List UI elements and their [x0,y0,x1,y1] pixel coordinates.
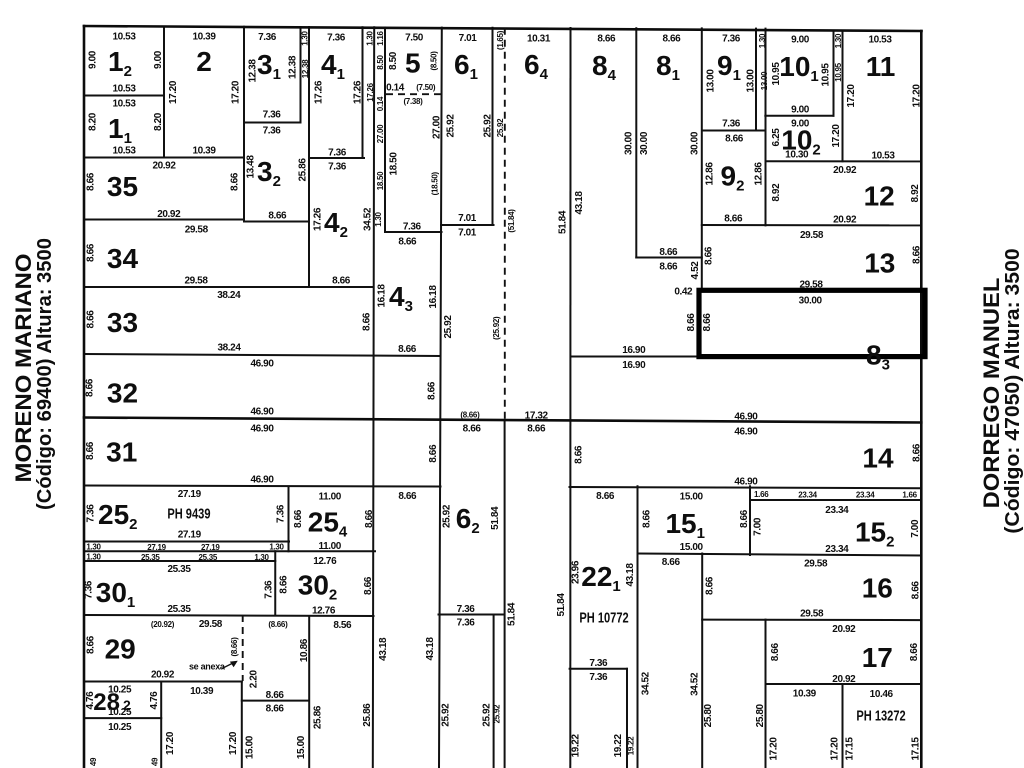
svg-text:8.66: 8.66 [86,172,97,191]
svg-text:27.19: 27.19 [178,489,202,500]
svg-text:8.20: 8.20 [88,112,99,131]
svg-text:17.20: 17.20 [831,124,842,148]
svg-text:46.90: 46.90 [250,359,274,370]
svg-text:38.24: 38.24 [217,290,241,301]
svg-text:17.20: 17.20 [830,737,841,761]
svg-text:8.66: 8.66 [363,576,374,595]
svg-text:8.92: 8.92 [771,183,782,202]
svg-text:23.96: 23.96 [571,560,582,584]
svg-text:8.66: 8.66 [362,312,373,331]
svg-text:25.92: 25.92 [496,118,505,137]
svg-text:8.92: 8.92 [910,184,921,203]
svg-text:25.35: 25.35 [141,553,160,562]
svg-text:20.92: 20.92 [832,674,856,685]
svg-text:8.66: 8.66 [85,378,96,397]
svg-text:19.22: 19.22 [613,734,624,758]
svg-text:7.01: 7.01 [459,33,478,44]
svg-text:11.00: 11.00 [319,541,342,552]
svg-text:34: 34 [107,243,139,274]
svg-text:34.52: 34.52 [640,671,651,695]
svg-text:(8.66): (8.66) [230,637,239,657]
svg-text:PH 13272: PH 13272 [856,707,905,724]
svg-text:16.90: 16.90 [622,345,646,356]
svg-text:1.30: 1.30 [366,30,375,45]
svg-text:43.18: 43.18 [425,637,436,661]
svg-text:(1.65): (1.65) [496,30,505,50]
svg-text:17.26: 17.26 [352,80,363,104]
svg-text:1.66: 1.66 [754,490,769,499]
svg-text:2.20: 2.20 [248,670,259,689]
svg-text:13.00: 13.00 [760,71,769,90]
svg-text:8.66: 8.66 [364,509,375,528]
svg-text:13: 13 [864,247,895,278]
svg-text:38.24: 38.24 [217,343,241,354]
svg-text:7.36: 7.36 [263,126,282,137]
svg-text:7.36: 7.36 [86,504,97,523]
svg-text:29.58: 29.58 [800,609,824,620]
svg-text:7.01: 7.01 [458,228,477,239]
svg-text:51.84: 51.84 [556,593,567,617]
svg-text:8.66: 8.66 [597,34,616,45]
svg-text:27.00: 27.00 [431,115,442,139]
svg-text:(25.92): (25.92) [492,316,501,340]
svg-text:18.50: 18.50 [376,171,385,190]
svg-text:14: 14 [862,442,894,473]
svg-text:7.36: 7.36 [457,604,476,615]
svg-text:10.39: 10.39 [793,688,817,699]
svg-text:17.15: 17.15 [845,737,856,761]
svg-text:7.36: 7.36 [327,33,346,44]
svg-text:25.92: 25.92 [483,114,494,138]
svg-text:17: 17 [862,642,893,673]
svg-text:8.66: 8.66 [266,690,285,701]
svg-text:23.34: 23.34 [798,491,817,500]
svg-text:(7.50): (7.50) [416,83,436,92]
svg-text:1.66: 1.66 [902,491,917,500]
svg-text:8.66: 8.66 [86,635,97,654]
svg-text:10.53: 10.53 [868,35,892,46]
svg-text:8.66: 8.66 [662,557,681,568]
svg-text:20.92: 20.92 [833,215,857,226]
svg-text:25.35: 25.35 [167,604,191,615]
svg-text:7.01: 7.01 [458,213,477,224]
svg-text:(51.84): (51.84) [507,209,516,233]
svg-text:30.00: 30.00 [639,131,650,155]
svg-text:25.35: 25.35 [198,553,217,562]
svg-text:16.18: 16.18 [428,285,439,309]
svg-text:8.66: 8.66 [527,423,546,434]
svg-text:8.66: 8.66 [266,704,285,715]
svg-text:10.39: 10.39 [192,32,216,43]
svg-text:7.36: 7.36 [328,162,347,173]
svg-text:46.90: 46.90 [734,477,758,488]
svg-text:8.66: 8.66 [86,243,97,262]
svg-text:11.00: 11.00 [319,492,342,503]
svg-text:8.66: 8.66 [428,444,439,463]
svg-text:7.36: 7.36 [263,580,274,599]
svg-text:(Código: 47050) Altura: 3500: (Código: 47050) Altura: 3500 [1002,248,1024,533]
svg-text:7.50: 7.50 [405,33,424,44]
svg-text:0.14: 0.14 [386,83,405,94]
svg-text:16.18: 16.18 [377,284,388,308]
svg-text:7.36: 7.36 [589,672,608,683]
svg-text:17.26: 17.26 [313,80,324,104]
svg-text:19.22: 19.22 [627,736,636,755]
svg-text:10.25: 10.25 [108,722,132,733]
svg-text:PH 9439: PH 9439 [167,505,210,522]
svg-text:1.30: 1.30 [300,30,309,45]
svg-text:7.36: 7.36 [275,504,286,523]
svg-text:25.86: 25.86 [313,705,324,729]
svg-text:15.00: 15.00 [680,492,704,503]
svg-text:8.66: 8.66 [268,211,287,222]
svg-text:25.92: 25.92 [442,504,453,528]
svg-text:25.86: 25.86 [298,158,309,182]
svg-text:12.86: 12.86 [704,162,715,186]
svg-text:27.19: 27.19 [147,543,166,552]
svg-text:7.36: 7.36 [589,658,608,669]
svg-text:17.20: 17.20 [231,80,242,104]
svg-text:0.14: 0.14 [376,96,385,111]
svg-text:7.00: 7.00 [910,519,921,538]
svg-text:10.39: 10.39 [190,686,214,697]
svg-text:8.66: 8.66 [642,509,653,528]
svg-text:34.52: 34.52 [362,207,373,231]
svg-text:8.66: 8.66 [702,313,713,332]
svg-text:0.42: 0.42 [674,286,693,297]
svg-text:10.53: 10.53 [871,151,895,162]
svg-text:9.00: 9.00 [791,105,810,116]
svg-text:7.36: 7.36 [457,618,476,629]
svg-text:10.95: 10.95 [821,63,832,87]
svg-text:8.66: 8.66 [573,445,584,464]
svg-text:(18.50): (18.50) [431,171,440,195]
svg-text:8.66: 8.66 [86,310,97,329]
svg-text:29.58: 29.58 [185,225,209,236]
svg-text:8.66: 8.66 [686,313,697,332]
svg-text:(20.92): (20.92) [151,620,175,629]
svg-text:1.30: 1.30 [758,33,767,48]
svg-text:29.58: 29.58 [800,230,824,241]
svg-text:43.18: 43.18 [574,191,585,215]
svg-text:10.53: 10.53 [112,32,136,43]
svg-text:17.20: 17.20 [912,84,923,108]
svg-text:1.30: 1.30 [86,543,101,552]
svg-text:(7.38): (7.38) [403,97,423,106]
svg-text:1.16: 1.16 [376,30,385,45]
svg-text:19.22: 19.22 [571,734,582,758]
svg-text:DORREGO MANUEL: DORREGO MANUEL [979,278,1004,509]
svg-text:51.84: 51.84 [558,210,569,234]
svg-text:8.66: 8.66 [705,576,716,595]
svg-text:8.66: 8.66 [85,441,96,460]
svg-text:12.38: 12.38 [301,59,310,78]
svg-text:8.66: 8.66 [427,381,438,400]
svg-text:1.30: 1.30 [86,553,101,562]
svg-text:34.52: 34.52 [690,672,701,696]
svg-text:12: 12 [864,181,895,212]
svg-text:32: 32 [107,378,138,409]
svg-text:16.90: 16.90 [622,360,646,371]
svg-text:8.66: 8.66 [770,643,781,662]
svg-text:8.50: 8.50 [376,54,385,69]
svg-text:18.50: 18.50 [389,152,400,176]
svg-text:7.36: 7.36 [722,118,741,129]
svg-text:10.53: 10.53 [112,84,136,95]
svg-text:7.36: 7.36 [328,148,347,159]
svg-text:51.84: 51.84 [490,506,501,530]
svg-text:17.32: 17.32 [525,410,549,421]
svg-text:8.66: 8.66 [739,509,750,528]
svg-text:29: 29 [105,634,136,665]
svg-text:20.92: 20.92 [152,161,176,172]
svg-text:16: 16 [862,573,893,604]
svg-text:17.20: 17.20 [228,731,239,755]
svg-text:7.00: 7.00 [752,517,763,536]
svg-text:(8.50): (8.50) [430,51,439,71]
svg-text:15.00: 15.00 [680,542,704,553]
svg-text:17.26: 17.26 [366,82,375,101]
svg-text:23.34: 23.34 [825,505,849,516]
svg-text:17.20: 17.20 [769,737,780,761]
svg-text:7.36: 7.36 [403,222,422,233]
svg-text:1.30: 1.30 [254,553,269,562]
svg-text:25.80: 25.80 [703,703,714,727]
svg-text:10.53: 10.53 [112,99,136,110]
svg-text:10.86: 10.86 [299,638,310,662]
svg-text:17.26: 17.26 [312,207,323,231]
svg-text:1.30: 1.30 [269,543,284,552]
svg-text:46.90: 46.90 [734,412,758,423]
svg-text:MORENO MARIANO: MORENO MARIANO [11,253,36,482]
svg-text:13.00: 13.00 [706,69,717,93]
svg-text:46.90: 46.90 [250,407,274,418]
svg-text:17.20: 17.20 [168,80,179,104]
svg-text:29.58: 29.58 [184,276,208,287]
svg-text:8.66: 8.66 [912,443,923,462]
svg-text:23.34: 23.34 [825,544,849,555]
svg-text:10.31: 10.31 [527,34,551,45]
svg-text:8.66: 8.66 [398,237,417,248]
svg-text:13.48: 13.48 [246,155,257,179]
svg-text:20.92: 20.92 [151,669,175,680]
svg-text:8.66: 8.66 [725,134,744,145]
svg-text:8.66: 8.66 [398,491,417,502]
svg-text:27.19: 27.19 [201,543,220,552]
svg-text:33: 33 [107,307,138,338]
svg-text:20.92: 20.92 [833,165,857,176]
svg-text:7.36: 7.36 [263,110,282,121]
svg-text:35: 35 [107,171,138,202]
svg-text:4.52: 4.52 [690,261,701,280]
svg-text:8.66: 8.66 [662,34,681,45]
svg-text:8.50: 8.50 [388,51,399,70]
svg-text:8.66: 8.66 [278,575,289,594]
svg-text:25.92: 25.92 [441,703,452,727]
svg-text:8.66: 8.66 [909,643,920,662]
svg-text:8.66: 8.66 [293,509,304,528]
svg-text:17.15: 17.15 [910,737,921,761]
svg-text:30.00: 30.00 [624,131,635,155]
svg-text:8.56: 8.56 [333,620,352,631]
svg-text:51.84: 51.84 [506,602,517,626]
svg-text:43.18: 43.18 [625,563,636,587]
svg-text:20.92: 20.92 [832,624,856,635]
svg-text:8.66: 8.66 [724,213,743,224]
svg-text:10.53: 10.53 [112,146,136,157]
svg-text:46.90: 46.90 [734,427,758,438]
svg-text:27.00: 27.00 [376,124,385,143]
svg-text:11: 11 [866,51,896,82]
svg-text:8.66: 8.66 [659,247,678,258]
svg-text:25.86: 25.86 [362,703,373,727]
svg-text:12.76: 12.76 [312,605,336,616]
svg-text:2: 2 [196,46,212,77]
svg-text:23.34: 23.34 [856,491,875,500]
svg-text:25.92: 25.92 [482,703,493,727]
svg-text:12.38: 12.38 [288,55,299,79]
svg-text:7.36: 7.36 [722,34,741,45]
svg-text:(8.66): (8.66) [460,411,480,420]
svg-text:8.66: 8.66 [463,423,482,434]
svg-text:10.95: 10.95 [834,62,843,81]
svg-text:31: 31 [106,436,137,467]
svg-text:(Código: 69400) Altura: 3500: (Código: 69400) Altura: 3500 [34,238,56,510]
svg-text:8.66: 8.66 [398,344,417,355]
svg-text:25.92: 25.92 [446,114,457,138]
svg-text:8.66: 8.66 [703,246,714,265]
svg-text:9.00: 9.00 [88,50,99,69]
svg-text:17.20: 17.20 [846,84,857,108]
svg-text:25.80: 25.80 [755,703,766,727]
svg-text:29.58: 29.58 [199,619,223,630]
svg-text:30.00: 30.00 [690,131,701,155]
svg-text:46.90: 46.90 [250,475,274,486]
svg-text:15.00: 15.00 [296,735,307,759]
svg-text:9.00: 9.00 [791,35,810,46]
svg-text:9.00: 9.00 [153,50,164,69]
svg-text:(8.66): (8.66) [268,620,288,629]
svg-text:25.35: 25.35 [167,564,191,575]
svg-text:8.66: 8.66 [912,245,923,264]
svg-text:1.30: 1.30 [374,211,383,226]
svg-text:10.46: 10.46 [870,689,894,700]
svg-text:15.00: 15.00 [244,735,255,759]
svg-text:13.00: 13.00 [746,69,757,93]
svg-text:29.58: 29.58 [799,280,823,291]
svg-text:8.20: 8.20 [153,112,164,131]
svg-text:20.92: 20.92 [157,209,181,220]
svg-text:29.58: 29.58 [804,559,828,570]
svg-text:27.19: 27.19 [178,530,202,541]
svg-text:25.92: 25.92 [493,704,502,723]
svg-text:49: 49 [150,757,159,766]
svg-text:1.30: 1.30 [834,33,843,48]
svg-text:10.39: 10.39 [192,146,216,157]
svg-text:PH 10772: PH 10772 [579,609,628,626]
svg-text:49: 49 [89,757,98,766]
svg-text:43.18: 43.18 [378,637,389,661]
svg-text:5: 5 [405,47,421,78]
svg-text:7.36: 7.36 [84,580,95,599]
svg-text:8.66: 8.66 [659,261,678,272]
svg-text:25.92: 25.92 [443,315,454,339]
svg-text:17.20: 17.20 [165,731,176,755]
svg-text:12.86: 12.86 [754,162,765,186]
svg-text:12.76: 12.76 [313,556,337,567]
svg-text:46.90: 46.90 [250,424,274,435]
svg-text:8.66: 8.66 [910,581,921,600]
svg-text:8.66: 8.66 [596,491,615,502]
svg-text:30.00: 30.00 [799,296,823,307]
svg-text:8.66: 8.66 [332,276,351,287]
svg-text:4.76: 4.76 [149,691,160,710]
svg-text:se anexa: se anexa [189,662,226,672]
svg-text:7.36: 7.36 [258,32,277,43]
svg-text:8.66: 8.66 [230,172,241,191]
